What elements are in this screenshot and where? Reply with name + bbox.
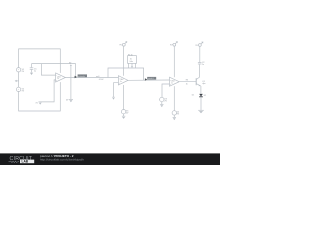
svg-text:1x: 1x: [171, 82, 173, 84]
rail supply above OA2: [122, 41, 127, 46]
wire between V1 and V2: [18, 72, 20, 87]
wire V5 to ground: [123, 114, 125, 116]
wire OA1 output bus to OA2: [65, 77, 118, 79]
net label after OA2: [145, 77, 156, 81]
rail tap symbol above OA1 output: [70, 64, 72, 77]
voltage source V4: [172, 111, 176, 115]
diode D1: [199, 94, 203, 97]
svg-text:kHz: kHz: [130, 61, 133, 63]
svg-text:1x: 1x: [120, 81, 122, 83]
voltage source V1: [16, 68, 20, 72]
op-amp OA1: [56, 73, 66, 82]
voltage source V3: [160, 97, 164, 101]
wire Q1 emitter down: [200, 86, 202, 94]
wire OA3 V- down: [173, 86, 175, 111]
capacitor on collector rail: [198, 46, 202, 64]
svg-text:out1: out1: [96, 75, 100, 78]
wire OA2 non-inverting to ground: [114, 83, 119, 98]
ground below OA1 output: [69, 99, 73, 102]
wire OA2 feedback: [108, 68, 144, 80]
wire OA3 output to Q1 base: [179, 81, 196, 83]
wire Q1 collector up: [199, 64, 201, 77]
V1 polarity marks: [18, 69, 20, 92]
wire rail to OA2 V+: [123, 46, 125, 75]
op-amp OA3: [170, 77, 180, 86]
ground below D1: [198, 110, 204, 113]
box stubs: [128, 63, 130, 68]
ground left arrow: [15, 80, 19, 82]
mini ground on feedback wire: [131, 63, 133, 66]
ground below V3: [160, 104, 163, 107]
ground below V5: [122, 116, 125, 119]
ground below C5: [30, 73, 33, 75]
wire rail to OA3 V+: [173, 46, 175, 77]
wire rail tap down through output to ground: [70, 77, 72, 99]
wire OA2 output to OA3: [128, 79, 170, 81]
wire bottom rail left section: [19, 82, 61, 111]
wire top rail left section: [19, 49, 61, 73]
svg-text:saida1: saida1: [148, 78, 155, 80]
capacitor C5: [30, 64, 34, 73]
svg-text:R6: R6: [186, 80, 188, 82]
CircuitLab logo LAB box: [20, 160, 34, 164]
ground OA1 non-inverting: [38, 102, 42, 105]
ground below V4: [173, 117, 176, 120]
OA2 input polarity marks: [119, 78, 121, 85]
footer bar: [0, 153, 220, 165]
CircuitLab logo resistor zigzag: [9, 161, 20, 163]
svg-text:1u: 1u: [34, 70, 36, 72]
OA3 input polarity marks: [170, 79, 172, 86]
wire OA3 non-inverting to V3: [162, 84, 170, 97]
op-amp OA2: [118, 76, 128, 85]
svg-text:1k: 1k: [186, 83, 188, 85]
svg-text:entrada: entrada: [78, 75, 86, 78]
svg-text:1x: 1x: [57, 78, 59, 80]
voltage source V2: [16, 87, 20, 91]
voltage source V5: [121, 110, 125, 114]
wire OA1 inverting input: [41, 64, 55, 76]
svg-text:D1: D1: [192, 95, 194, 97]
OA1 input polarity marks: [56, 75, 58, 82]
wire OA1 feedback top: [32, 64, 76, 78]
svg-text:4.50V: 4.50V: [99, 79, 104, 81]
svg-text:LAB: LAB: [22, 160, 29, 164]
wire OA2 V- down: [123, 85, 125, 110]
component box R5 above feedback: [128, 56, 137, 64]
svg-text:1u: 1u: [202, 64, 204, 66]
wire OA1 non-inverting input to ground: [40, 80, 55, 102]
svg-text:R5 1k: R5 1k: [128, 54, 133, 56]
svg-text:D1: D1: [204, 95, 206, 97]
wire V4 to ground: [173, 115, 175, 117]
wire D1 to ground: [200, 97, 202, 110]
net label after OA1: [75, 74, 87, 78]
rail supply above Q1: [199, 42, 204, 47]
wire V3 to ground: [161, 102, 163, 105]
transistor Q1: [196, 77, 201, 86]
rail supply above OA3: [173, 41, 178, 46]
ground OA2 non-inverting: [112, 97, 115, 100]
svg-text:http://circuitlab.com/c/bxxhkj: http://circuitlab.com/c/bxxhkjyxdh: [40, 157, 84, 161]
svg-text:npn: npn: [202, 83, 205, 85]
